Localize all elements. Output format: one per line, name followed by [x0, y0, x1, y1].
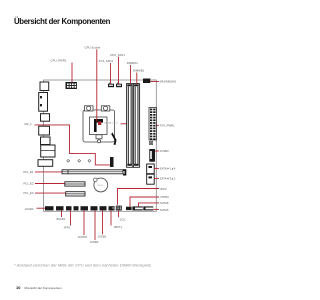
- battery BAT1: [94, 178, 108, 192]
- connector JFP2 pins: [0, 0, 1, 1]
- wire SATA1_4: [154, 167, 159, 169]
- bottom connector B7 JUSB1: [100, 206, 107, 210]
- wire PCI_E2: [35, 183, 65, 185]
- svg-text:CPU Socket: CPU Socket: [85, 45, 101, 49]
- wire JUSB3: [155, 150, 159, 152]
- dimension line to DIMM: [121, 123, 130, 125]
- svg-text:* Abstand zwischen der Mitte d: * Abstand zwischen der Mitte der CPU und…: [14, 263, 152, 268]
- io port P5: [41, 137, 51, 145]
- bottom connector B8 JBAT1: [109, 206, 115, 210]
- connector SATA5 horizontal: [143, 206, 153, 210]
- svg-text:SATA▼3▲2: SATA▼3▲2: [160, 177, 176, 181]
- connector ATX_PWR1: [149, 108, 156, 141]
- svg-text:ATX_PWR1: ATX_PWR1: [160, 123, 175, 127]
- connector JUSB3: [149, 149, 155, 162]
- connector CPU_PWR1: [66, 82, 77, 89]
- socket lever: [111, 133, 116, 146]
- io port P6: [41, 145, 55, 157]
- bottom connector B5 JCOM1: [81, 206, 89, 210]
- wire SYS_FAN1: [110, 63, 112, 84]
- wire JRGB1: [61, 210, 63, 217]
- svg-text:50.85 mm*: 50.85 mm*: [104, 121, 118, 125]
- connector JFP2 header: [114, 205, 120, 210]
- svg-text:JUSB1: JUSB1: [98, 234, 107, 238]
- io port P4: [39, 126, 50, 135]
- wire JUSB2: [94, 210, 96, 240]
- svg-text:JAUD1: JAUD1: [25, 207, 35, 211]
- cpu socket U1: [83, 106, 115, 143]
- motherboard outline: [44, 80, 157, 211]
- connector SATA 3-2 lower: [147, 174, 155, 184]
- node socket center mark: [98, 122, 101, 126]
- wire JCI1: [118, 210, 120, 217]
- bottom connector B4: [74, 206, 79, 210]
- svg-text:CMOS: CMOS: [97, 185, 104, 187]
- svg-text:10: 10: [16, 285, 21, 290]
- bottom connector B9 JCI1 pins: [116, 206, 122, 211]
- svg-text:DIMMA1: DIMMA1: [127, 61, 139, 65]
- svg-text:JUSB2: JUSB2: [90, 240, 99, 244]
- svg-text:CPU_FAN1: CPU_FAN1: [110, 53, 125, 57]
- wire ATX_PWR1: [156, 124, 159, 126]
- svg-text:PCI_E1: PCI_E1: [24, 170, 34, 174]
- wire JFP2 visible: [118, 189, 160, 205]
- io port P7: [38, 160, 53, 167]
- wire JTPM1: [130, 197, 159, 207]
- wire DIMMA1: [130, 65, 132, 84]
- slot PCI_E1: [62, 169, 126, 175]
- svg-text:JTPM1: JTPM1: [160, 195, 169, 199]
- wire JBAT1: [110, 210, 112, 225]
- wire JRAINBOW1: [150, 81, 159, 83]
- svg-text:JFP1: JFP1: [64, 226, 71, 230]
- wire SATA3_2: [154, 177, 159, 179]
- wire JAUD1: [37, 207, 46, 209]
- socket key mark: [94, 119, 103, 132]
- svg-text:JCOM1: JCOM1: [78, 235, 88, 239]
- bottom connector B6 JUSB2: [91, 206, 98, 210]
- wire PCI_E3: [35, 192, 66, 194]
- standoff hole 3: [88, 159, 91, 162]
- svg-text:Übersicht der Komponenten: Übersicht der Komponenten: [14, 17, 111, 26]
- svg-text:JUSB3: JUSB3: [160, 149, 169, 153]
- wire PCI_E1: [35, 171, 62, 173]
- wire SATA6: [139, 203, 160, 207]
- wire CPU_FAN1: [118, 57, 120, 84]
- DIMM slot DIMMB1: [133, 84, 139, 168]
- svg-text:SATA▼1▲4: SATA▼1▲4: [160, 167, 176, 171]
- io port P2: [39, 93, 48, 112]
- slot PCI_E3: [66, 192, 85, 196]
- wire CPU Socket: [96, 49, 98, 121]
- svg-text:JRAINBOW1: JRAINBOW1: [160, 80, 177, 84]
- speaker component: [149, 142, 152, 145]
- svg-text:CPU_PWR1: CPU_PWR1: [51, 59, 67, 63]
- standoff hole 2: [78, 159, 81, 162]
- io port P3: [41, 114, 50, 122]
- bottom connector B3 JFP1: [66, 206, 72, 210]
- svg-text:JBAT1: JBAT1: [114, 225, 123, 229]
- svg-text:JCI1: JCI1: [120, 217, 126, 221]
- connector JTPM1: [126, 207, 132, 210]
- io port P1: [40, 82, 49, 91]
- svg-text:Übersicht der Komponenten: Übersicht der Komponenten: [24, 286, 62, 290]
- wire DIMMB1: [136, 73, 138, 84]
- svg-text:PCI_E3: PCI_E3: [24, 191, 34, 195]
- svg-text:SATA6: SATA6: [160, 201, 169, 205]
- svg-text:JRGB1: JRGB1: [56, 217, 66, 221]
- fan header CPU_FAN1: [116, 83, 122, 88]
- bottom connector B2 JRGB1: [56, 206, 64, 210]
- fan header SYS_FAN1: [108, 83, 114, 88]
- slot PCI_E2: [65, 182, 85, 186]
- DIMM slot DIMMA1: [127, 84, 133, 168]
- svg-text:SYS_FAN1: SYS_FAN1: [99, 59, 114, 63]
- svg-text:JFP2: JFP2: [160, 187, 167, 191]
- wire JUSB1: [102, 210, 104, 234]
- connector SATA6 horizontal: [132, 206, 142, 210]
- M.2 slot connector: [110, 157, 114, 167]
- svg-text:PCI_E2: PCI_E2: [24, 182, 34, 186]
- wire JFP1: [70, 210, 72, 225]
- wire SATA5: [153, 208, 159, 210]
- svg-text:M2_1: M2_1: [25, 122, 33, 126]
- bottom connector JAUD1: [45, 206, 54, 210]
- wire M2_1: [35, 125, 110, 165]
- svg-text:SATA5: SATA5: [160, 208, 169, 212]
- svg-text:DIMMB1: DIMMB1: [133, 69, 145, 73]
- wire JCOM1: [83, 210, 85, 235]
- standoff hole 1: [67, 159, 70, 162]
- connector JRAINBOW1: [143, 79, 150, 84]
- wire CPU_PWR1: [71, 63, 73, 83]
- connector SATA 1-4 upper: [147, 164, 155, 174]
